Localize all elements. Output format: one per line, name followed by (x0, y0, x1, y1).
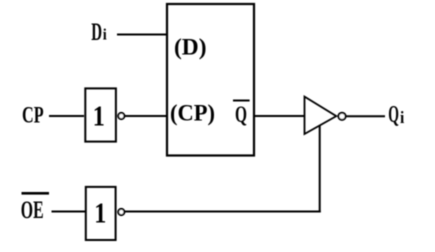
wire buffer enable (vertical) (319, 126, 321, 213)
wire U1 bubble to flip-flop CP input (125, 115, 168, 117)
svg-text:1: 1 (93, 100, 105, 132)
inverter U1 box (85, 88, 116, 141)
tri-state buffer U4 (305, 97, 337, 134)
svg-text:(CP): (CP) (170, 101, 215, 126)
inverter U3 box (86, 187, 116, 240)
svg-text:Q: Q (235, 102, 247, 127)
svg-text:1: 1 (94, 197, 106, 229)
svg-text:CP: CP (22, 103, 44, 129)
svg-text:(D): (D) (174, 34, 207, 59)
wire Di to flip-flop D input (117, 34, 167, 36)
svg-text:OE: OE (21, 197, 44, 224)
wire U4 bubble to Qi (346, 115, 385, 117)
wire U3 bubble to buffer enable (horizontal) (125, 211, 321, 213)
inverting bubble of U4 (338, 113, 345, 120)
inverting bubble of U3 (118, 209, 124, 215)
wire CP to inverter U1 (49, 115, 84, 117)
svg-text:Q: Q (388, 101, 399, 128)
svg-text:i: i (103, 27, 108, 44)
wire OE to inverter U3 (52, 211, 86, 213)
svg-text:i: i (400, 108, 405, 127)
flip-flop U2 body (167, 4, 254, 156)
svg-text:D: D (91, 19, 102, 46)
wire Q-bar output to tri-state buffer (254, 115, 304, 117)
inverting bubble of U1 (118, 113, 124, 119)
